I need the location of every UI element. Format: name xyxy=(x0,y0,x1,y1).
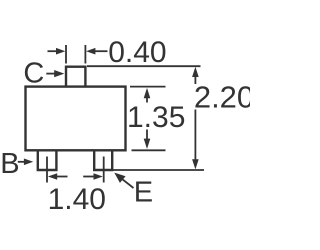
0.40 extension tick left xyxy=(65,45,67,64)
2.20 down arrowhead xyxy=(192,159,199,169)
svg-text:E: E xyxy=(134,177,153,209)
arrowheads xyxy=(24,48,199,183)
0.40 left arrowhead xyxy=(56,48,65,55)
1.35 down arrowhead xyxy=(144,139,151,149)
dimension graphics xyxy=(18,45,204,188)
0.40 right arrowhead xyxy=(86,48,95,55)
pin E lead (bottom right) xyxy=(94,150,112,171)
2.20 bottom extension line xyxy=(113,169,204,171)
0.40 left arrow tail xyxy=(48,50,58,52)
svg-text:C: C xyxy=(23,58,44,90)
1.35 top extension line xyxy=(130,86,166,88)
label E arrowhead xyxy=(114,173,125,183)
package body xyxy=(26,87,126,151)
pin E centerline xyxy=(103,157,105,183)
transistor package outline xyxy=(26,67,126,170)
pin B centerline xyxy=(46,157,48,183)
2.20 dimension line lower segment xyxy=(194,110,196,161)
2.20 up arrowhead xyxy=(192,67,199,77)
label B arrowhead xyxy=(24,159,33,166)
1.35 bottom extension line xyxy=(132,149,166,151)
1.35 down arrow tail xyxy=(146,130,148,140)
1.40 left arrow tail xyxy=(57,176,68,178)
pin C tab (top) xyxy=(66,67,85,88)
svg-text:0.40: 0.40 xyxy=(108,36,166,69)
label B leader line xyxy=(18,161,25,163)
svg-text:1.40: 1.40 xyxy=(48,183,106,216)
1.40 left arrowhead xyxy=(48,173,57,180)
1.35 up arrowhead xyxy=(144,88,151,98)
0.40 extension tick right xyxy=(84,45,86,64)
label C arrowhead xyxy=(54,70,64,77)
2.20 dimension line upper segment xyxy=(194,76,196,84)
0.40 right arrow tail xyxy=(95,50,108,52)
svg-text:1.35: 1.35 xyxy=(127,101,185,134)
1.35 up arrow tail xyxy=(146,98,148,103)
2.20 top extension line xyxy=(87,65,201,67)
svg-text:B: B xyxy=(0,148,19,180)
1.40 right arrowhead xyxy=(94,173,103,180)
svg-text:2.20: 2.20 xyxy=(194,79,250,114)
label C leader line xyxy=(46,73,55,75)
label E leader line xyxy=(122,179,134,188)
1.40 right arrow tail xyxy=(83,176,94,178)
pin B lead (bottom left) xyxy=(38,150,57,171)
